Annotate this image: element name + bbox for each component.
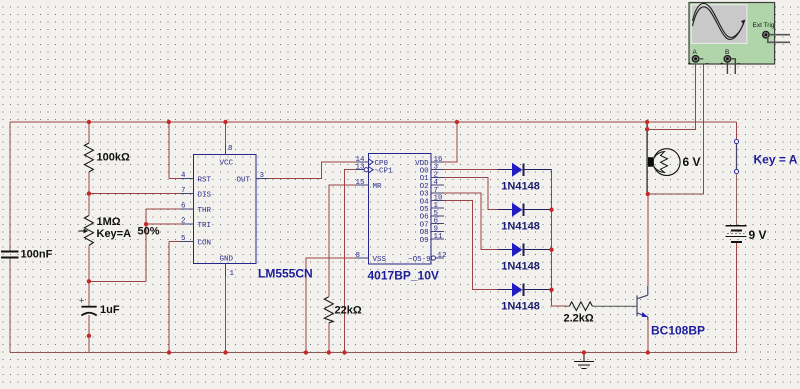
wire 100k to pot / DIS junction — [88, 172, 90, 216]
svg-text:100kΩ: 100kΩ — [97, 152, 130, 164]
svg-text:~CP1: ~CP1 — [375, 168, 394, 176]
resistor R1 100kOhm — [84, 143, 93, 172]
wire diode cathode bus — [551, 170, 567, 307]
wire bottom rail — [10, 352, 737, 354]
resistor R4 2.2kOhm — [567, 305, 638, 307]
switch S1 Key=A — [734, 122, 738, 226]
svg-text:100nF: 100nF — [21, 249, 53, 261]
svg-text:4: 4 — [181, 172, 186, 180]
svg-text:Key=A: Key=A — [97, 228, 132, 240]
wire O4 to D4 — [444, 201, 498, 290]
svg-text:1N4148: 1N4148 — [501, 301, 540, 313]
wire pot bottom to 1uF — [89, 246, 146, 307]
wire right battery column — [736, 243, 738, 353]
junction top rail / lamp — [645, 120, 649, 124]
capacitor C2 1uF polarized — [81, 307, 96, 316]
junction bottom rail / CON — [167, 350, 171, 354]
svg-text:8: 8 — [228, 145, 233, 153]
IC U1 LM555CN box — [194, 155, 257, 264]
battery V1 9V — [726, 226, 747, 242]
svg-text:BC108BP: BC108BP — [651, 324, 705, 338]
svg-text:2: 2 — [181, 218, 186, 226]
U2 inversion bubble pin 12 — [431, 256, 435, 260]
wire DIS pin7 — [89, 193, 181, 195]
junction bottom rail / emitter — [646, 350, 650, 354]
wire scope A- down to lamp bottom — [648, 59, 704, 194]
svg-text:Ext Trig: Ext Trig — [753, 22, 775, 29]
svg-text:OUT: OUT — [236, 177, 250, 185]
wire scope A+ to lamp top — [695, 62, 697, 129]
lamp X1 — [647, 122, 680, 194]
svg-text:1uF: 1uF — [100, 304, 120, 316]
svg-text:GND: GND — [220, 256, 234, 264]
junction lamp top / scope A — [645, 127, 649, 131]
junction top rail / RST — [167, 120, 171, 124]
junction top rail / R1 — [87, 120, 91, 124]
svg-text:13: 13 — [355, 164, 365, 172]
wire left rail — [9, 122, 11, 353]
svg-text:TRI: TRI — [198, 222, 212, 230]
svg-text:1: 1 — [230, 270, 235, 278]
svg-text:22kΩ: 22kΩ — [335, 305, 362, 317]
diode D1 1N4148 — [498, 163, 551, 177]
svg-text:50%: 50% — [138, 226, 160, 238]
junction R2 bottom / C2 — [87, 279, 91, 283]
emitter arrow — [642, 312, 648, 317]
wire emitter to ground rail — [647, 318, 649, 353]
wire O0 to D1 — [444, 169, 498, 171]
wire 1uF bottom — [88, 315, 90, 353]
wire lamp top from rail — [647, 60, 696, 129]
svg-text:4017BP_10V: 4017BP_10V — [368, 269, 439, 283]
resistor R3 22kOhm — [324, 297, 333, 323]
U2 clock input triangle CP1 — [369, 167, 374, 173]
svg-text:THR: THR — [198, 207, 212, 215]
junction collector / lamp bottom — [646, 192, 650, 196]
svg-text:CON: CON — [198, 240, 212, 248]
wire VSS to ground rail — [306, 258, 356, 353]
junction R1 / R2 / DIS — [87, 191, 91, 195]
junction bottom rail / ground — [582, 350, 586, 354]
svg-text:1N4148: 1N4148 — [501, 221, 540, 233]
svg-text:RST: RST — [198, 177, 212, 185]
wire THR vertical — [146, 209, 181, 281]
diode D2 1N4148 — [498, 203, 551, 217]
svg-text:+: + — [688, 61, 691, 67]
transistor Q1 BC108BP — [637, 286, 648, 320]
wire GND pin1 — [225, 276, 227, 353]
potentiometer R2 1MOhm — [79, 216, 94, 246]
capacitor C1 100nF — [1, 252, 19, 258]
diode D3 1N4148 — [498, 243, 551, 257]
wire collector to lamp bottom — [647, 194, 649, 286]
svg-text:12: 12 — [438, 252, 447, 260]
junction top rail / VCC — [223, 120, 227, 124]
svg-text:6: 6 — [181, 202, 186, 210]
svg-text:11: 11 — [434, 233, 444, 241]
svg-text:5: 5 — [181, 235, 186, 243]
svg-text:15: 15 — [355, 179, 365, 187]
wire VCC pin8 — [225, 122, 227, 145]
junction top rail / VDD — [455, 120, 459, 124]
wire TRI pin2 — [146, 223, 181, 225]
junction bottom rail / GND pin1 — [223, 350, 227, 354]
wire CP1 to ground rail — [345, 170, 356, 353]
svg-text:O9: O9 — [420, 237, 429, 245]
svg-text:3: 3 — [260, 172, 265, 180]
svg-text:LM555CN: LM555CN — [258, 267, 313, 281]
svg-text:1N4148: 1N4148 — [501, 261, 540, 273]
wire RST pin4 — [169, 122, 181, 179]
svg-text:MR: MR — [373, 183, 383, 191]
wire MR to 22k — [329, 185, 356, 297]
junction bottom rail / CP1 — [342, 350, 346, 354]
svg-text:DIS: DIS — [198, 192, 212, 200]
svg-text:9 V: 9 V — [749, 228, 767, 242]
svg-text:+: + — [79, 296, 84, 306]
svg-text:1MΩ: 1MΩ — [97, 216, 121, 228]
svg-text:VSS: VSS — [373, 256, 387, 264]
wire OUT to CP0 — [269, 162, 356, 179]
wire VDD to top rail — [444, 122, 457, 162]
wire CON pin5 — [169, 242, 181, 353]
svg-text:~O5-9: ~O5-9 — [408, 256, 431, 264]
junction diode bus D4 — [549, 288, 553, 292]
U2 clock input triangle CP0 — [369, 159, 374, 165]
ground — [574, 353, 594, 369]
junction bottom rail / VSS — [304, 350, 308, 354]
svg-text:2.2kΩ: 2.2kΩ — [564, 313, 594, 325]
junction THR / TRI — [144, 222, 148, 226]
svg-text:7: 7 — [181, 187, 186, 195]
IC U2 4017BP_10V box — [369, 154, 432, 264]
junction diode bus D2 — [549, 208, 553, 212]
wire O3 to D3 — [444, 193, 498, 250]
svg-text:6 V: 6 V — [683, 155, 701, 169]
wire 22k bottom — [328, 323, 330, 353]
junction C2 lower — [87, 334, 91, 338]
wire 100k top branch — [88, 122, 90, 143]
wire O1 to D2 — [444, 177, 498, 209]
wire top rail — [10, 121, 737, 123]
svg-text:1N4148: 1N4148 — [501, 181, 540, 193]
diode D4 1N4148 — [498, 283, 551, 297]
svg-text:Key = A: Key = A — [754, 153, 798, 167]
junction bottom rail / R3 — [327, 350, 331, 354]
svg-text:VCC: VCC — [220, 160, 234, 168]
oscilloscope XSC1 — [688, 3, 790, 75]
svg-text:+: + — [720, 61, 723, 67]
junction diode bus D3 — [549, 248, 553, 252]
svg-text:8: 8 — [355, 252, 360, 260]
